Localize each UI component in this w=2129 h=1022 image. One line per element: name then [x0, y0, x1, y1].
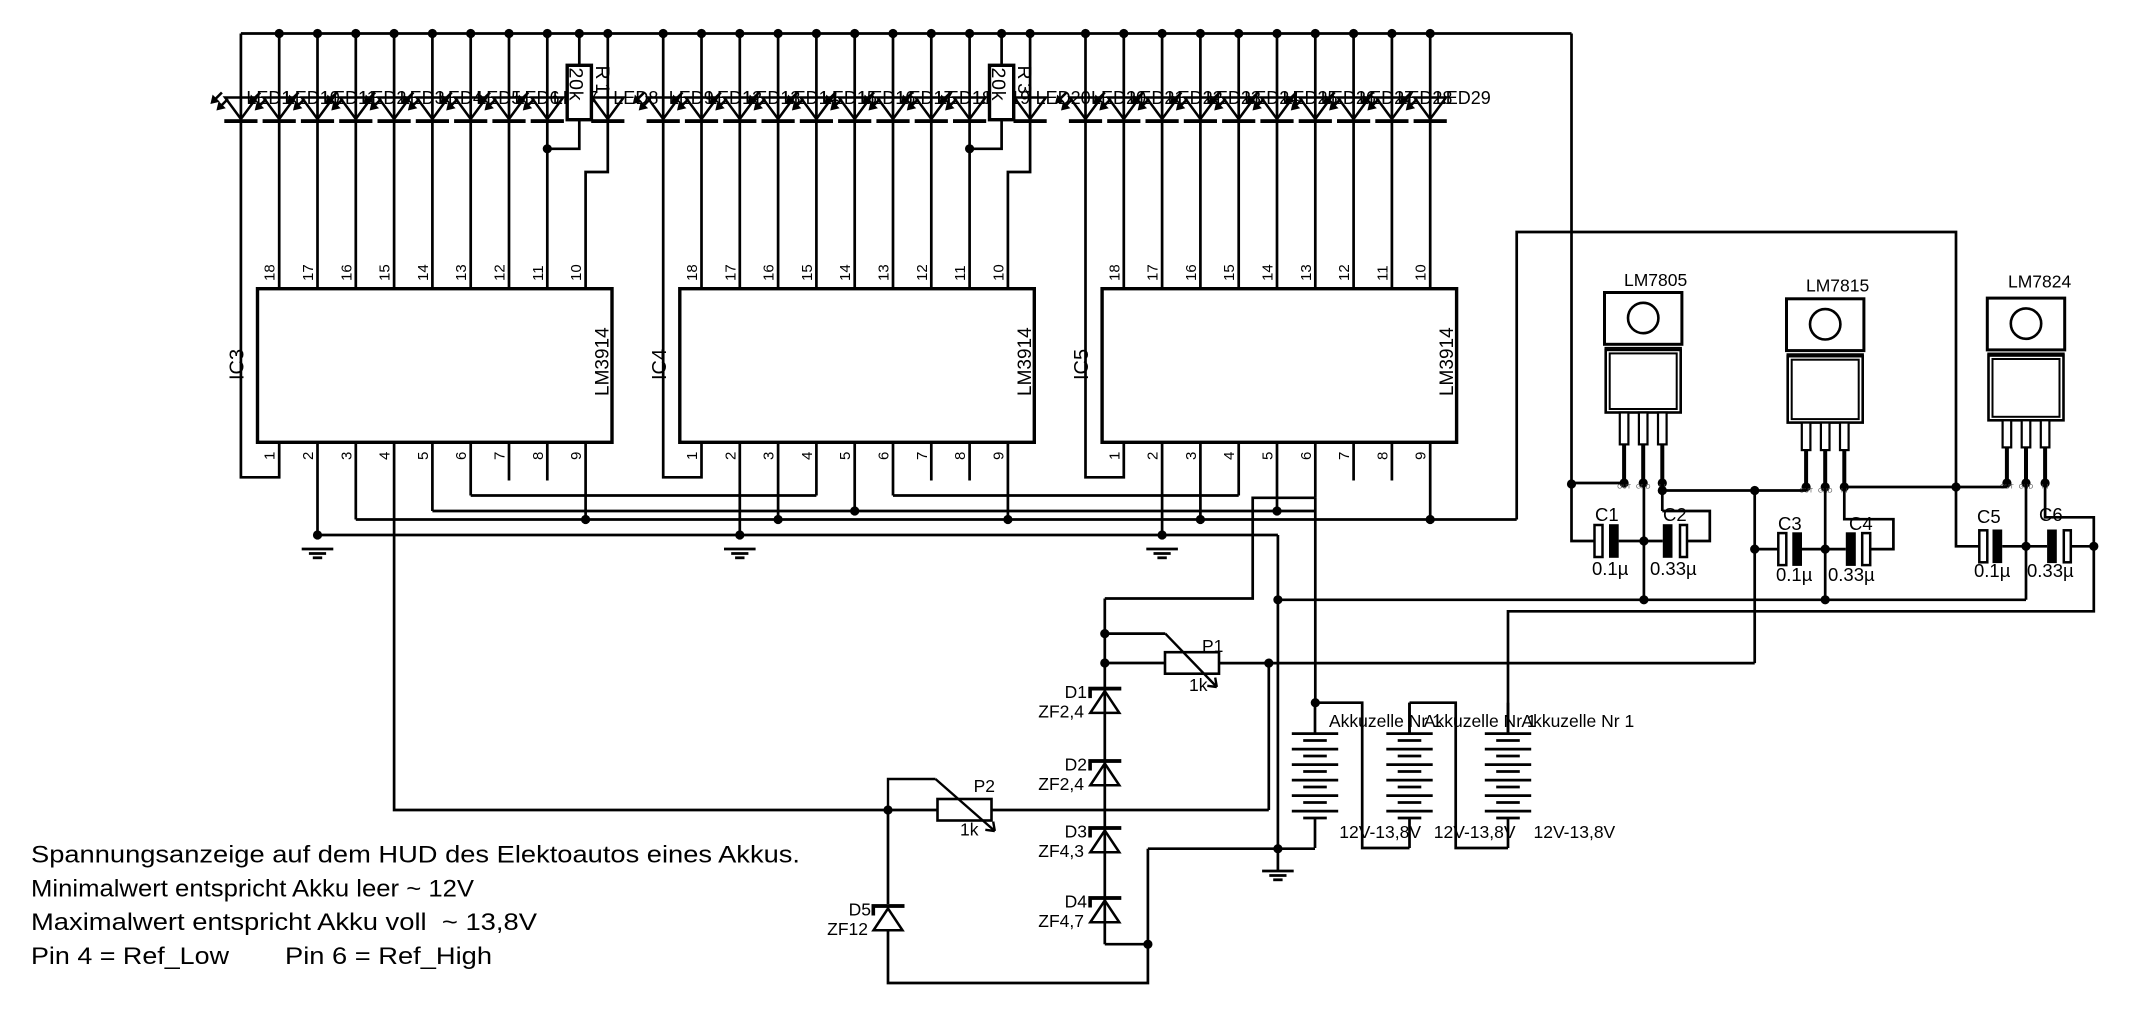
junction: [997, 29, 1006, 38]
pin labels OUT GND IN of LM7824: [2000, 484, 2049, 491]
wire D4 bottom link: [1105, 943, 1148, 946]
wire R1 to LED column: [547, 120, 579, 149]
svg-text:C1: C1: [1595, 504, 1619, 525]
junction: [1158, 29, 1167, 38]
svg-text:9: 9: [1413, 452, 1430, 460]
wire P1 net to LM7815 OUT net: [1753, 549, 1756, 663]
junction: [774, 29, 783, 38]
wire V- bus pin2: [318, 534, 1278, 537]
svg-text:R3: R3: [1013, 66, 1035, 98]
wire pin 9 drop: [584, 442, 587, 519]
junction: [1821, 595, 1830, 604]
svg-text:Maximalwert entspricht Akku vo: Maximalwert entspricht Akku voll ~ 13,8V: [31, 909, 538, 936]
wire LM7815 IN to 24V node: [1844, 486, 1956, 489]
wire LED column: [777, 34, 780, 289]
junction: [1196, 515, 1205, 524]
junction: [2089, 542, 2098, 551]
wire LED column: [968, 34, 971, 289]
wire LED column: [1276, 34, 1279, 289]
svg-text:7: 7: [492, 452, 509, 460]
svg-text:15: 15: [1221, 264, 1238, 281]
svg-text:12V-13,8V: 12V-13,8V: [1534, 822, 1616, 842]
svg-text:2: 2: [300, 452, 317, 460]
wire C5 to C6: [2002, 545, 2047, 548]
wire C3 left stub: [1755, 548, 1779, 551]
svg-text:15: 15: [377, 264, 394, 281]
svg-text:LM3914: LM3914: [593, 327, 614, 396]
svg-text:LM3914: LM3914: [1437, 327, 1458, 396]
svg-text:5: 5: [415, 452, 432, 460]
svg-text:8: 8: [530, 452, 547, 460]
ground: [1146, 549, 1178, 558]
wire dogleg LED column: [1008, 34, 1030, 289]
svg-text:4: 4: [377, 452, 394, 460]
pin 7 stub of IC4: [930, 442, 933, 480]
junction: [275, 29, 284, 38]
svg-text:Spannungsanzeige auf dem HUD d: Spannungsanzeige auf dem HUD des Elektoa…: [31, 842, 800, 869]
svg-text:0.1µ: 0.1µ: [1592, 558, 1629, 579]
wire LM7815 GND drop: [1824, 487, 1827, 600]
voltage regulator LM7815: [1787, 299, 1864, 492]
svg-text:Akkuzelle Nr 1: Akkuzelle Nr 1: [1521, 711, 1634, 731]
svg-text:11: 11: [530, 265, 547, 281]
pin labels OUT GND IN of LM7805: [1617, 484, 1666, 491]
junction: [1639, 595, 1648, 604]
junction: [1026, 29, 1035, 38]
LED LED22: [1132, 93, 1179, 124]
capacitor C5: [1979, 530, 2002, 564]
LED LED5: [440, 93, 487, 124]
LED LED2: [325, 93, 372, 124]
junction: [697, 29, 706, 38]
LED LED29: [1400, 93, 1447, 124]
ground: [724, 549, 756, 558]
wire ground node to battery minus: [1148, 847, 1315, 850]
resistor R3: [990, 65, 1014, 119]
wire pin 3 drop: [1199, 442, 1202, 519]
LED LED18: [901, 93, 948, 124]
wire R3 to LED column: [970, 120, 1002, 149]
svg-text:ZF2,4: ZF2,4: [1038, 774, 1084, 794]
wire pin 9 drop: [1007, 442, 1010, 519]
wire C6 loop: [2045, 483, 2094, 546]
LED LED13: [709, 93, 756, 124]
junction: [1273, 595, 1282, 604]
svg-text:3: 3: [761, 452, 778, 460]
wire pin 3 drop: [354, 442, 357, 519]
junction: [1272, 506, 1281, 515]
wire 5V rail to LM7805 OUT: [1572, 482, 1625, 485]
wire C1 left: [1572, 484, 1595, 541]
zener diode D4: [1088, 896, 1121, 922]
junction: [390, 29, 399, 38]
junction: [1273, 844, 1282, 853]
potentiometer P2 wiper: [888, 779, 936, 810]
svg-text:10: 10: [990, 264, 1007, 281]
wire pin 4 drop: [815, 442, 818, 495]
wire LM7805 IN to LM7815 OUT: [1662, 489, 1806, 492]
wire C5 left: [1956, 487, 1979, 546]
svg-text:13: 13: [1298, 264, 1315, 281]
LED LED26: [1285, 93, 1332, 124]
svg-text:C2: C2: [1663, 504, 1687, 525]
svg-text:16: 16: [338, 264, 355, 281]
junction: [1426, 515, 1435, 524]
wire LED column: [431, 34, 434, 289]
svg-text:D3: D3: [1065, 822, 1087, 842]
pin 8 stub of IC5: [1391, 442, 1394, 480]
svg-text:20k: 20k: [987, 68, 1009, 102]
zener diode D3: [1088, 826, 1121, 852]
wire LED column: [700, 34, 703, 289]
wire pin 6 drop: [1314, 442, 1317, 498]
svg-text:ZF12: ZF12: [827, 919, 868, 939]
svg-text:4: 4: [1221, 452, 1238, 460]
wire C3 to C4: [1802, 548, 1846, 551]
LED LED14: [748, 93, 795, 124]
junction: [1119, 29, 1128, 38]
potentiometer P1 body: [1165, 652, 1219, 674]
LED LED21: [1093, 93, 1140, 124]
battery Akkuzelle Nr 1 (middle): [1386, 703, 1432, 848]
wire IC3 pin6 to IC4 pin4: [471, 494, 817, 497]
svg-text:D5: D5: [849, 900, 871, 920]
junction: [659, 29, 668, 38]
wire 24V node to LM7824 OUT: [1956, 486, 2007, 489]
wire LED column to IC pin 1: [241, 34, 279, 478]
junction: [428, 29, 437, 38]
battery Akkuzelle Nr 1 (left): [1292, 703, 1338, 848]
wire C2 loop: [1662, 511, 1710, 541]
svg-text:4: 4: [799, 452, 816, 460]
svg-text:LED29: LED29: [1436, 88, 1491, 108]
junction: [1387, 29, 1396, 38]
wire LED column: [354, 34, 357, 289]
junction: [1567, 479, 1576, 488]
junction: [850, 506, 859, 515]
capacitor C2: [1663, 524, 1687, 558]
zener diode D5: [872, 904, 905, 930]
svg-text:8: 8: [952, 452, 969, 460]
junction: [927, 29, 936, 38]
svg-text:0.1µ: 0.1µ: [1974, 560, 2011, 581]
wire LED column: [546, 34, 549, 289]
voltage regulator LM7805: [1605, 293, 1682, 488]
wire IC4 pin6 to IC5 pin4: [893, 494, 1239, 497]
svg-text:LM7815: LM7815: [1806, 276, 1869, 296]
svg-text:15: 15: [799, 264, 816, 281]
IC IC5 LM3914 body: [1102, 289, 1457, 443]
wire P2 node to D5: [887, 810, 890, 904]
wire battery1 minus to battery2 plus link: [1315, 703, 1410, 848]
junction: [1272, 29, 1281, 38]
wire dogleg LED column: [586, 34, 608, 289]
LED LED1: [210, 93, 257, 124]
wire LM7805 IN drop: [1661, 483, 1664, 511]
svg-text:C5: C5: [1977, 506, 2001, 527]
junction: [1311, 29, 1320, 38]
svg-text:12: 12: [492, 264, 509, 281]
wire LED column to IC pin 1: [663, 34, 701, 478]
junction: [1750, 545, 1759, 554]
svg-text:17: 17: [1145, 264, 1162, 281]
svg-text:13: 13: [876, 264, 893, 281]
svg-text:7: 7: [1336, 452, 1353, 460]
resistor R1: [567, 65, 591, 119]
svg-text:0.33µ: 0.33µ: [1828, 564, 1875, 585]
wire pin 6 drop: [892, 442, 895, 495]
wire battery sense feed: [1314, 498, 1317, 703]
junction: [466, 29, 475, 38]
svg-text:C4: C4: [1849, 513, 1873, 534]
junction: [735, 29, 744, 38]
svg-text:0.1µ: 0.1µ: [1776, 564, 1813, 585]
svg-text:D1: D1: [1065, 682, 1087, 702]
junction: [965, 29, 974, 38]
svg-text:20k: 20k: [565, 68, 587, 102]
svg-text:12: 12: [1336, 264, 1353, 281]
junction: [1003, 515, 1012, 524]
svg-text:16: 16: [1183, 264, 1200, 281]
svg-text:IC5: IC5: [1071, 349, 1093, 380]
junction: [581, 515, 590, 524]
LED LED20: [1000, 93, 1047, 124]
wire battery2 top link: [1408, 703, 1411, 734]
svg-text:12V-13,8V: 12V-13,8V: [1434, 822, 1516, 842]
wire LED column: [738, 34, 741, 289]
svg-text:2: 2: [722, 452, 739, 460]
junction: [313, 530, 322, 539]
svg-text:2: 2: [1145, 452, 1162, 460]
svg-text:18: 18: [262, 264, 279, 281]
junction: [774, 515, 783, 524]
LED LED20: [1055, 93, 1102, 124]
pin labels OUT GND IN of LM7815: [1799, 488, 1848, 495]
svg-text:C6: C6: [2039, 504, 2063, 525]
wire pin 5 drop: [431, 442, 434, 511]
junction: [1750, 486, 1759, 495]
wire LED column: [1161, 34, 1164, 289]
svg-text:3: 3: [1183, 452, 1200, 460]
wire D5 bottom loop: [888, 931, 1148, 984]
svg-text:IC4: IC4: [649, 349, 671, 380]
wire LED column: [393, 34, 396, 289]
wire LED column to IC pin 1: [1086, 34, 1124, 478]
wire pin 9 drop: [1429, 442, 1432, 519]
svg-text:D2: D2: [1065, 755, 1087, 775]
svg-text:1: 1: [684, 452, 701, 460]
wire LED column: [316, 34, 319, 289]
svg-text:1: 1: [1106, 452, 1123, 460]
capacitor C4: [1846, 532, 1870, 566]
wire P1 right drop to P2 rail: [1267, 663, 1270, 810]
svg-text:5: 5: [837, 452, 854, 460]
wire LED column: [1122, 34, 1125, 289]
wire pin 6 drop: [469, 442, 472, 495]
svg-text:6: 6: [876, 452, 893, 460]
LED LED4: [402, 93, 449, 124]
junction: [351, 29, 360, 38]
svg-text:17: 17: [300, 264, 317, 281]
svg-text:0.33µ: 0.33µ: [2027, 560, 2074, 581]
svg-text:16: 16: [761, 264, 778, 281]
junction: [1264, 659, 1273, 668]
junction: [965, 144, 974, 153]
junction: [735, 530, 744, 539]
capacitor C6: [2047, 530, 2071, 564]
svg-text:1k: 1k: [960, 820, 979, 840]
junction: [888, 29, 897, 38]
svg-text:9: 9: [990, 452, 1007, 460]
junction: [1311, 698, 1320, 707]
wire LED column: [892, 34, 895, 289]
svg-text:LM7805: LM7805: [1624, 270, 1687, 290]
LED LED19: [939, 93, 986, 124]
wire pin 5 drop: [1276, 442, 1279, 511]
svg-text:17: 17: [722, 264, 739, 281]
svg-text:6: 6: [453, 452, 470, 460]
wire V+ bus riser: [1517, 232, 1956, 520]
wire battery2 to battery3 link: [1410, 703, 1509, 848]
wire V- bus drop: [1277, 535, 1280, 871]
wire LED column: [1429, 34, 1432, 289]
wire LM7824 GND drop: [2025, 483, 2028, 600]
svg-text:1k: 1k: [1189, 675, 1208, 695]
junction: [883, 805, 892, 814]
junction: [1143, 940, 1152, 949]
pin 7 stub of IC5: [1352, 442, 1355, 480]
junction: [2021, 542, 2030, 551]
junction: [1100, 629, 1109, 638]
svg-text:9: 9: [568, 452, 585, 460]
wire D4 to ground node: [1147, 849, 1150, 945]
LED LED8: [577, 93, 624, 124]
junction: [1234, 29, 1243, 38]
wire ground bus regulators: [1278, 598, 2026, 601]
battery Akkuzelle Nr 1 (right): [1485, 703, 1531, 848]
svg-text:7: 7: [914, 452, 931, 460]
zener diode D2: [1088, 759, 1121, 785]
LED LED7: [517, 93, 564, 124]
svg-text:ZF2,4: ZF2,4: [1038, 702, 1084, 722]
wire pin 2 drop: [316, 442, 319, 535]
wire LED column: [930, 34, 933, 289]
pin 7 stub of IC3: [508, 442, 511, 480]
junction: [1196, 29, 1205, 38]
svg-text:Pin 6 = Ref_High: Pin 6 = Ref_High: [285, 943, 492, 970]
junction: [603, 29, 612, 38]
wire LED column: [469, 34, 472, 289]
wire C1 to C2: [1619, 540, 1663, 543]
junction: [1658, 486, 1667, 495]
svg-text:11: 11: [952, 265, 969, 281]
wire LM7805 GND drop: [1643, 483, 1646, 600]
LED LED10: [249, 93, 296, 124]
wire zener chain: [1103, 599, 1106, 945]
LED LED16: [824, 93, 871, 124]
wire LED column: [278, 34, 281, 289]
pin 8 stub of IC4: [968, 442, 971, 480]
junction: [850, 29, 859, 38]
LED LED24: [1208, 93, 1255, 124]
wire pin 2 drop: [738, 442, 741, 535]
wire P1 wiper feed: [1105, 632, 1166, 635]
wire IC3 pin4 to P2: [394, 442, 1269, 810]
wire LED column: [1199, 34, 1202, 289]
wire LED column: [853, 34, 856, 289]
wire zener chain top riser: [1105, 498, 1316, 599]
svg-text:8: 8: [1374, 452, 1391, 460]
svg-text:P2: P2: [974, 776, 995, 796]
svg-text:ZF4,7: ZF4,7: [1038, 911, 1084, 931]
svg-text:ZF4,3: ZF4,3: [1038, 841, 1084, 861]
wire rail to R3: [1000, 34, 1003, 66]
svg-text:IC3: IC3: [227, 349, 249, 380]
potentiometer P1 wiper: [1164, 632, 1166, 634]
svg-text:C3: C3: [1778, 513, 1802, 534]
svg-text:LM7824: LM7824: [2008, 272, 2072, 292]
junction: [812, 29, 821, 38]
wire LED column: [1237, 34, 1240, 289]
junction: [313, 29, 322, 38]
svg-text:Akkuzelle Nr 1: Akkuzelle Nr 1: [1424, 711, 1537, 731]
svg-text:D4: D4: [1065, 892, 1088, 912]
LED LED27: [1323, 93, 1370, 124]
wire LED anode top rail: [241, 32, 1572, 35]
potentiometer P2 body: [938, 799, 992, 821]
wire C3 drop: [1753, 491, 1756, 550]
svg-text:14: 14: [837, 264, 854, 281]
junction: [1349, 29, 1358, 38]
junction: [575, 29, 584, 38]
LED LED11: [287, 93, 334, 124]
wire pin 2 drop: [1161, 442, 1164, 535]
svg-text:P1: P1: [1202, 636, 1223, 656]
wire LED column: [1314, 34, 1317, 289]
LED LED25: [1247, 93, 1294, 124]
zener diode D1: [1088, 687, 1121, 713]
IC IC4 LM3914 body: [680, 289, 1035, 443]
ground: [1262, 871, 1294, 880]
svg-text:6: 6: [1298, 452, 1315, 460]
wire rail to R1: [578, 34, 581, 66]
svg-text:18: 18: [684, 264, 701, 281]
voltage regulator LM7824: [1987, 298, 2064, 488]
capacitor C1: [1595, 524, 1619, 558]
capacitor C3: [1778, 532, 1802, 566]
svg-text:0.33µ: 0.33µ: [1650, 558, 1697, 579]
wire LED column: [1391, 34, 1394, 289]
svg-text:LM3914: LM3914: [1015, 327, 1036, 396]
junction: [504, 29, 513, 38]
svg-text:12: 12: [914, 264, 931, 281]
wire P1 right terminal: [1219, 662, 1755, 665]
svg-text:Minimalwert entspricht Akku le: Minimalwert entspricht Akku leer ~ 12V: [31, 875, 475, 902]
junction: [1100, 658, 1109, 667]
svg-text:12V-13,8V: 12V-13,8V: [1339, 822, 1421, 842]
svg-text:5: 5: [1260, 452, 1277, 460]
junction: [1821, 545, 1830, 554]
junction: [1426, 29, 1435, 38]
svg-text:10: 10: [1413, 264, 1430, 281]
wire LED column: [1352, 34, 1355, 289]
LED LED17: [863, 93, 910, 124]
junction: [1158, 530, 1167, 539]
junction: [543, 144, 552, 153]
wire C4 loop: [1844, 487, 1893, 549]
ground: [302, 549, 334, 558]
svg-text:14: 14: [1260, 264, 1277, 281]
